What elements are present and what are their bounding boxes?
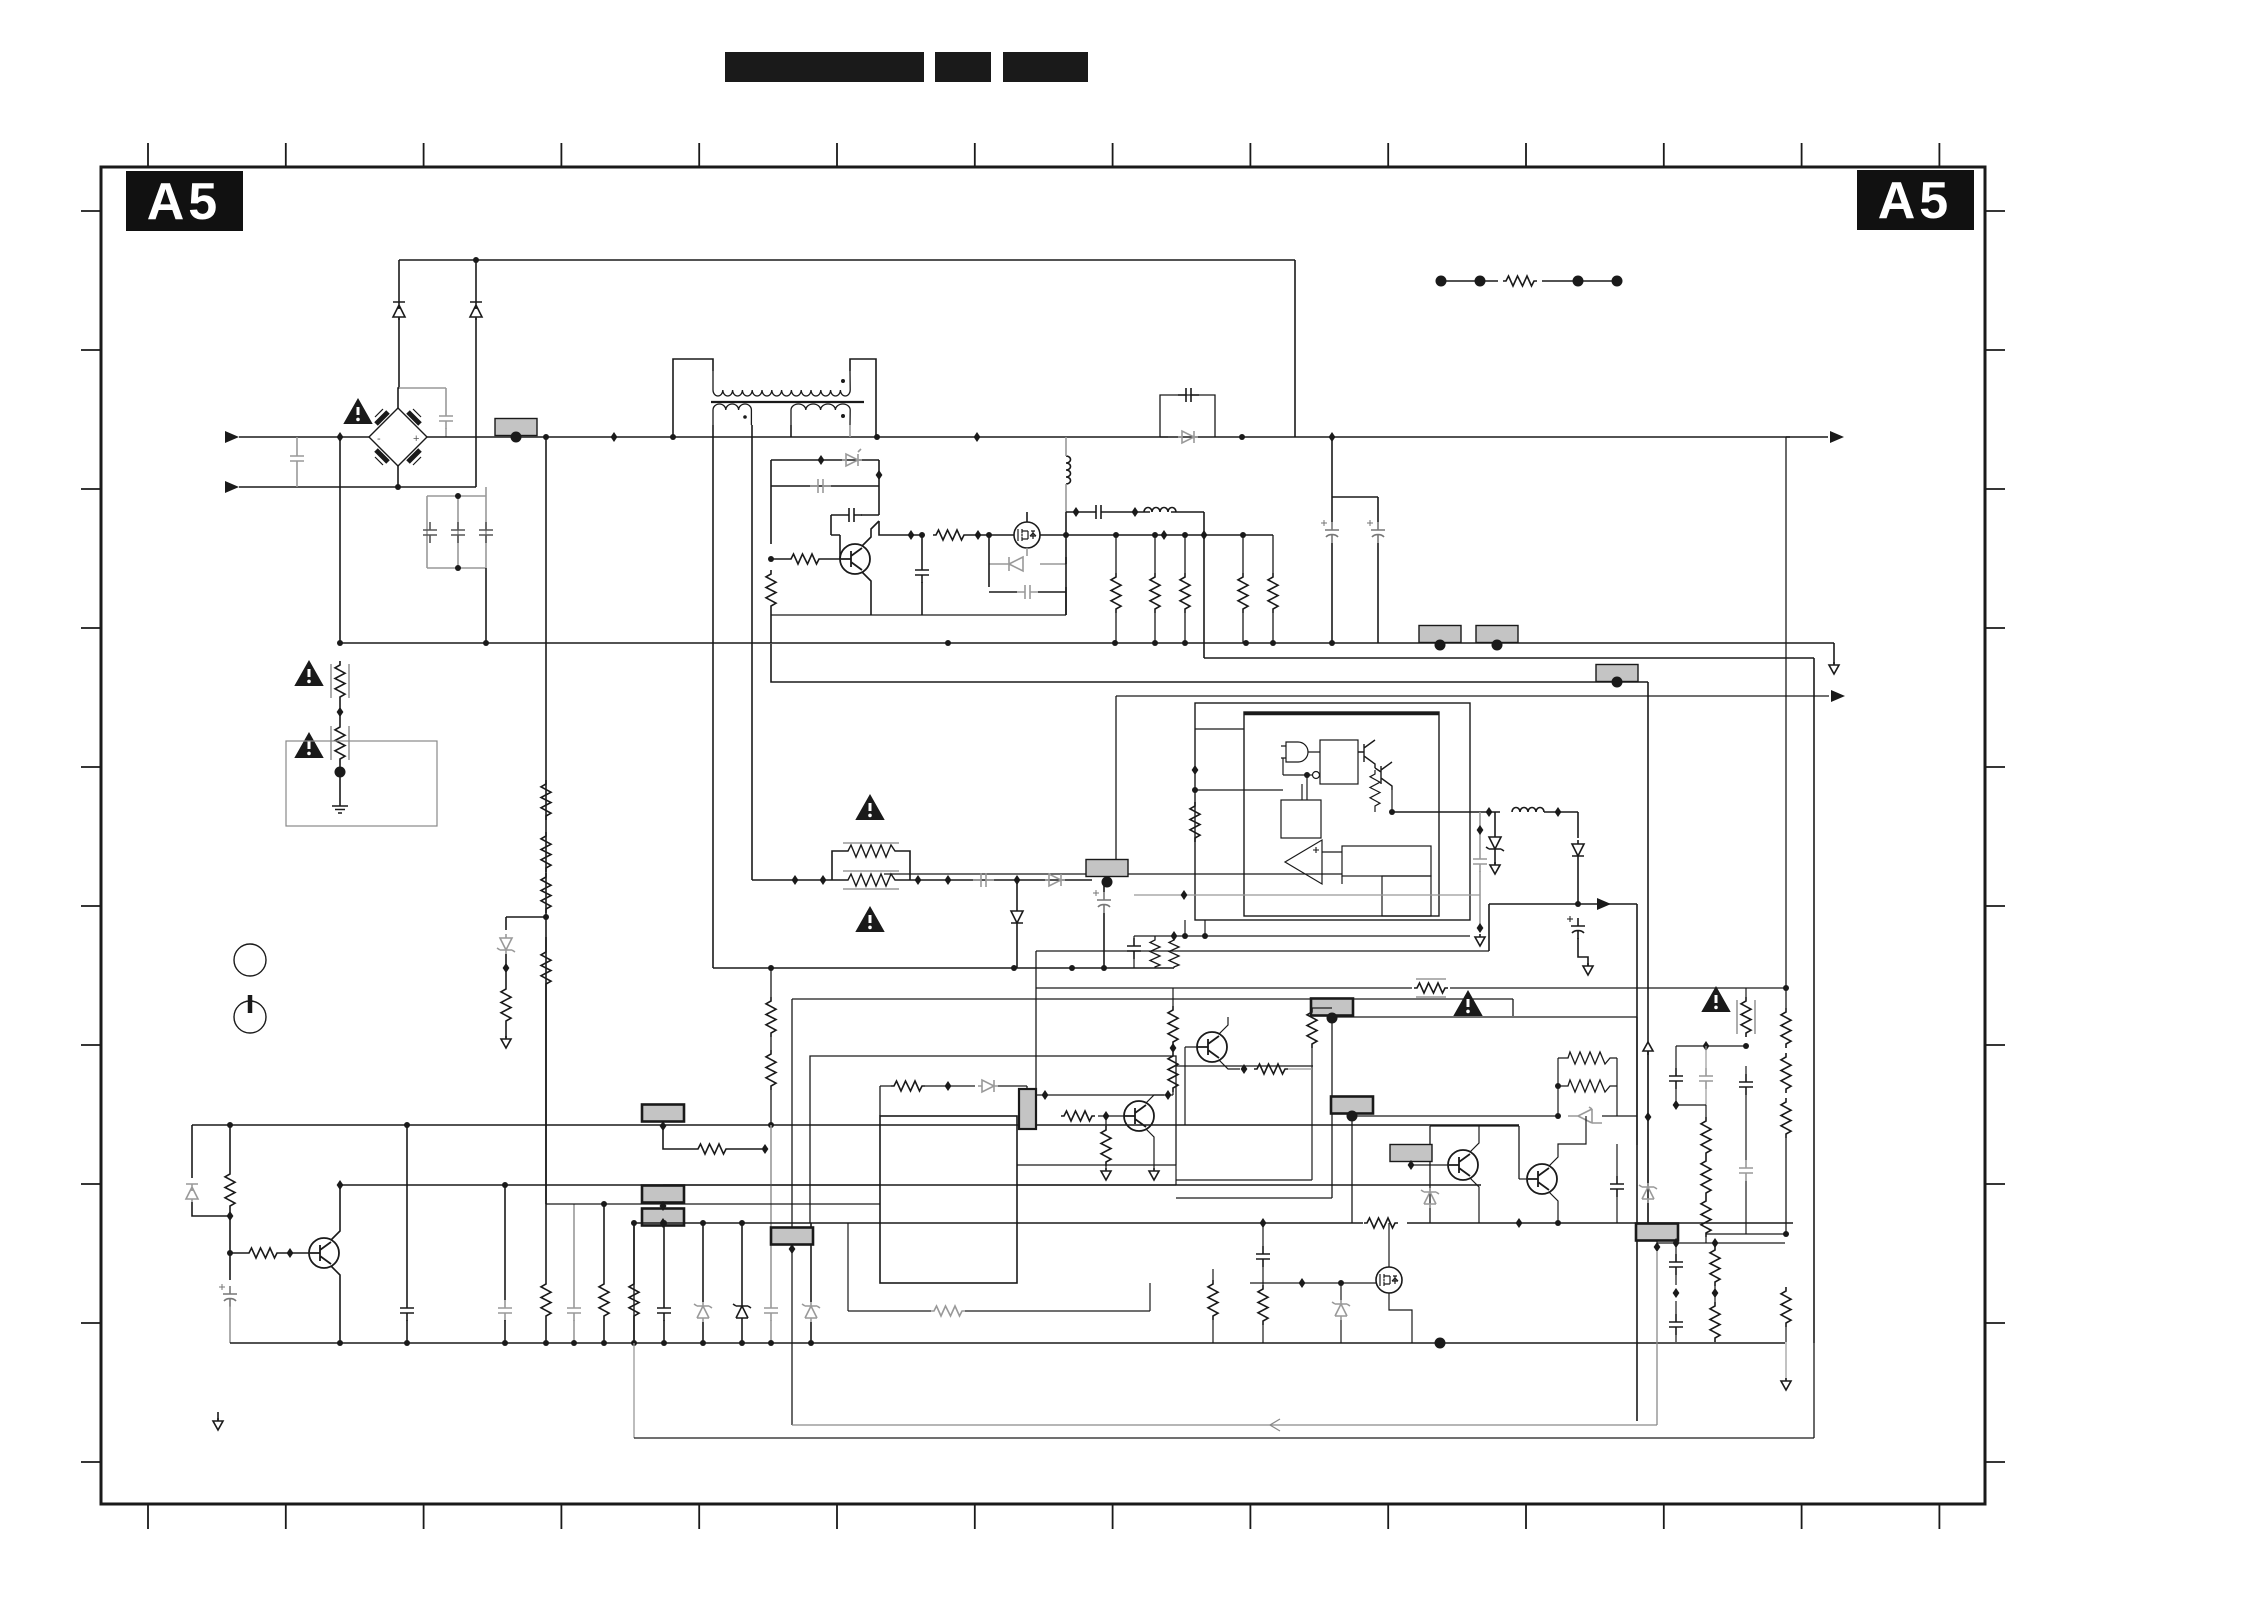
junction: [700, 1340, 706, 1346]
junction: [1192, 765, 1199, 775]
wire opamp to ref: [884, 852, 1342, 884]
wire Q3 collector up: [331, 1185, 340, 1240]
wire x=546 long vertical: [545, 437, 547, 1204]
capacitor C1 across mains: [290, 448, 304, 469]
junction: [1014, 875, 1021, 885]
resistor R1: [788, 554, 822, 564]
wire R29 row: [663, 1126, 762, 1149]
resistor R19: [843, 843, 899, 857]
wire Q3 emitter down: [331, 1266, 340, 1343]
IC pin stub: [1184, 920, 1186, 936]
IC outer box: [1195, 703, 1470, 920]
junction: [768, 556, 774, 562]
connector lug P104: [1596, 665, 1638, 682]
diode D7: [1178, 431, 1198, 443]
junction: [1304, 772, 1310, 778]
junction: [1673, 1100, 1680, 1110]
logic box: [1320, 740, 1358, 784]
wire D20 column + up arrow: [1647, 1050, 1649, 1216]
AND gate: [1281, 742, 1320, 762]
electrolytic cap C12: [1321, 520, 1339, 543]
wire y=682 line: [771, 644, 1648, 1225]
zener D9: [1486, 833, 1504, 853]
junction: [455, 493, 461, 499]
ground arrow: [213, 1418, 223, 1430]
junction: [1389, 809, 1395, 815]
transistor 2 in IC: [1375, 762, 1392, 790]
parallel resistor pair box: [832, 851, 910, 880]
capacitor C8: [915, 562, 929, 583]
resistor R15: [501, 985, 511, 1025]
border frame: [101, 167, 1985, 1504]
capacitor C6: [810, 479, 831, 493]
resistor R45: [1701, 1117, 1711, 1157]
capacitor C21: [498, 1300, 512, 1321]
wire gate: [967, 534, 1014, 536]
wire y=951: [1036, 950, 1489, 952]
wire C24: [770, 1125, 772, 1343]
zener D19: [1421, 1188, 1439, 1208]
resistor R3: [933, 530, 967, 540]
junction: [502, 1340, 508, 1346]
junction: [1182, 640, 1188, 646]
wire Q5 collector: [1470, 1126, 1479, 1152]
resistor R30: [891, 1081, 925, 1091]
junction: [1712, 1238, 1719, 1248]
transistor Q1: [840, 544, 870, 574]
junction: [919, 532, 925, 538]
wire y=968 bus: [713, 967, 1174, 969]
junction: [1486, 807, 1493, 817]
wire y=696 line: [1116, 695, 1829, 697]
wire R9: [1272, 535, 1274, 643]
junction: [768, 965, 774, 971]
junction: [1703, 1041, 1710, 1051]
junction: [1152, 532, 1158, 538]
wire R6: [1154, 535, 1156, 643]
capacitor C7: [841, 508, 862, 522]
wire row2: [771, 485, 879, 487]
open arrow: [1781, 1378, 1791, 1390]
junction: [1783, 985, 1789, 991]
wire C8: [921, 535, 923, 615]
resistor R53: [1168, 1006, 1178, 1046]
big dot: [1327, 1013, 1338, 1024]
wire main bus right end + arrow: [1786, 436, 1828, 438]
wire R52: [1105, 1116, 1107, 1170]
wire slot to right: [1036, 1094, 1098, 1096]
wire R7: [1184, 535, 1186, 643]
junction: [1673, 1288, 1680, 1298]
wire x546 gaps: [545, 937, 547, 1204]
wire D17 to slot: [998, 1086, 1027, 1089]
diode D17: [978, 1080, 998, 1092]
zener D14: [694, 1302, 712, 1322]
junction: [1101, 965, 1107, 971]
capacitor C30: [1739, 1160, 1753, 1181]
junction: [543, 914, 549, 920]
junction: [1240, 532, 1246, 538]
warning triangle: [345, 400, 371, 423]
wire R54 to slot row: [1098, 1094, 1173, 1096]
transistor Q3: [309, 1238, 339, 1268]
secondary winding 1: [713, 404, 751, 425]
junction: [1113, 532, 1119, 538]
junction: [601, 1201, 607, 1207]
zener D11: [1011, 907, 1023, 927]
wire R45-47 links: [1705, 1105, 1707, 1243]
big dot: [511, 432, 522, 443]
gray connector P108: [771, 1228, 813, 1245]
phase dot primary: [841, 379, 845, 383]
junction: [1243, 640, 1249, 646]
junction: [1073, 507, 1080, 517]
junction: [227, 1211, 234, 1221]
junction: [1555, 1220, 1561, 1226]
wire D16: [810, 1223, 812, 1343]
wire R24: [229, 1125, 231, 1216]
big dot: [1612, 276, 1623, 287]
resistor R5: [1111, 573, 1121, 613]
resistor R25 base: [246, 1248, 280, 1258]
inverter bubble: [1283, 758, 1320, 800]
junction: [1069, 965, 1075, 971]
IC pin stub: [1204, 920, 1206, 936]
transistor Q4: [1197, 1032, 1227, 1062]
junction: [1329, 432, 1336, 442]
zener D10: [1572, 840, 1584, 860]
junction: [1181, 890, 1188, 900]
wire Q1 collector to gate row: [879, 521, 922, 535]
wire C31: [1675, 1243, 1677, 1285]
wire bridge top corner to snubber cap: [399, 388, 446, 408]
wire Q8 emitter: [1146, 1129, 1154, 1170]
wire left leg: [770, 460, 772, 544]
wire: [505, 954, 507, 1038]
capacitor C23: [657, 1300, 671, 1321]
diode D6 with bypass: [1160, 395, 1215, 437]
capacitor C24: [764, 1300, 778, 1321]
gray connector P110 thick: [1331, 1097, 1373, 1114]
junction diamond: [660, 1121, 667, 1131]
bus y=936 lower caps: [1134, 935, 1470, 937]
junction: [915, 875, 922, 885]
capacitor C26: [1256, 1246, 1270, 1267]
wire Q1 emitter: [862, 572, 871, 615]
zener D16: [802, 1302, 820, 1322]
junction: [986, 532, 992, 538]
gray connector P112: [1636, 1224, 1678, 1241]
wire R38: [1262, 1283, 1264, 1343]
junction: [337, 640, 343, 646]
capacitor C31: [1669, 1254, 1683, 1275]
junction: [670, 434, 676, 440]
wire y=988: [1036, 951, 1785, 1089]
big dot: [1435, 640, 1446, 651]
open arrow: [1475, 934, 1485, 946]
big dot: [1435, 1338, 1446, 1349]
wire y=1185: [340, 1184, 1481, 1186]
wire base row: [230, 1252, 309, 1254]
wire y=1243 right bus: [1657, 1242, 1785, 1244]
filled arrow: [1597, 898, 1611, 910]
wire R39: [1212, 1269, 1214, 1343]
wire R50 down + gnd arrow: [1785, 1342, 1787, 1380]
wire y=999 box top: [792, 999, 1513, 1425]
ground: [332, 798, 348, 813]
wire C14: [1479, 812, 1481, 928]
junction: [1299, 1278, 1306, 1288]
junction: [1555, 1083, 1561, 1089]
junction: [502, 1182, 508, 1188]
wire gate rail to right: [1040, 534, 1273, 536]
capacitor C2: [439, 408, 453, 429]
connector lug P102: [1419, 626, 1461, 643]
big dot: [1347, 1111, 1358, 1122]
resistor R7: [1180, 573, 1190, 613]
outer box around IC: [810, 1056, 1176, 1223]
bus y=1223 right part: [880, 1222, 1793, 1224]
resistor R32: [1307, 1008, 1317, 1048]
wire D14: [702, 1223, 704, 1343]
sheet label A5 top-right: [1857, 170, 1974, 230]
resistor R36: [1558, 1080, 1617, 1092]
junction: [876, 470, 883, 480]
capacitor C14: [1473, 851, 1487, 872]
big dot: [1436, 276, 1447, 287]
wire D3 stem: [475, 260, 477, 487]
zener D21: [1332, 1300, 1350, 1320]
electrolytic C19: [219, 1284, 237, 1307]
wire gnd stub: [217, 1412, 219, 1421]
wire P112 link: [1648, 1216, 1657, 1243]
open arrow down: [501, 1036, 511, 1048]
junction: [792, 875, 799, 885]
transistor Q5: [1448, 1150, 1478, 1180]
wire R55/R56 column: [770, 968, 772, 1125]
svg-text:+: +: [413, 433, 419, 445]
open arrow up: [1643, 1042, 1653, 1055]
wire Q6 emitter: [1549, 1192, 1558, 1223]
resistor R29: [695, 1144, 729, 1154]
wire base: [771, 558, 788, 560]
warning triangle: [1455, 992, 1481, 1015]
junction: [1673, 1238, 1680, 1248]
junction: [337, 1180, 344, 1190]
wire C15 down: [1578, 938, 1588, 966]
wire base row Q5: [1411, 1161, 1448, 1165]
power switch symbol: [234, 995, 266, 1033]
wire D21: [1340, 1283, 1342, 1343]
connector lug P106: [642, 1186, 684, 1203]
resistor R39: [1208, 1280, 1218, 1320]
redacted title bar 2: [935, 52, 991, 82]
wire C27: [1675, 1046, 1677, 1105]
wire AC line 2: [239, 486, 476, 488]
wire cap row: [831, 514, 879, 516]
junction: [571, 1340, 577, 1346]
wire C29: [1745, 1066, 1747, 1160]
wire base link: [822, 535, 840, 559]
resistor R13: [541, 832, 551, 872]
wire D13 to corner: [192, 1202, 230, 1216]
big dot: [1475, 276, 1486, 287]
big dot: [335, 767, 346, 778]
wire to x1637: [1602, 1115, 1637, 1117]
capacitor C32: [1669, 1314, 1683, 1335]
diode D3: [470, 302, 482, 320]
wire return bus y=1438: [634, 1343, 1814, 1438]
wire x=192 leg: [191, 1125, 193, 1178]
junction: [1011, 965, 1017, 971]
vertical connector slot: [1019, 1089, 1036, 1129]
IC inner box thick top: [1244, 712, 1439, 916]
inductor L3: [1512, 808, 1544, 813]
capacitor C22: [567, 1300, 581, 1321]
diode D12: [1045, 874, 1065, 886]
redacted title bar 3: [1003, 52, 1088, 82]
wire C21: [504, 1185, 506, 1343]
junction diamond: [660, 1201, 667, 1211]
resistor R22: [1169, 936, 1179, 968]
junction: [700, 1220, 706, 1226]
fusible resistor R41: [1737, 997, 1755, 1037]
resistor R40: [1498, 274, 1542, 288]
wire: [445, 428, 447, 437]
svg-text:A5: A5: [147, 173, 221, 231]
wire D11: [1016, 880, 1018, 968]
junction: [473, 257, 479, 263]
resistor R20: [843, 871, 899, 889]
wire: [1301, 784, 1303, 800]
resistor R55: [766, 997, 776, 1037]
transformer core: [711, 401, 864, 403]
junction diamond: [660, 1201, 667, 1211]
resistor R54: [1168, 1052, 1178, 1092]
wire bridge top to diodes: [398, 318, 399, 408]
main IC box U2: [880, 1116, 1017, 1283]
capacitor C10: [1088, 505, 1109, 519]
resistor R51: [1061, 1111, 1095, 1121]
resistor R8: [1238, 573, 1248, 613]
connector lug P105: [642, 1105, 684, 1122]
wire C19: [229, 1306, 231, 1343]
junction: [503, 963, 510, 973]
capacitor bank C3 C4 C5 rails: [427, 487, 486, 568]
resistor R17 on left edge: [1190, 802, 1200, 842]
wire C30 down: [1745, 1181, 1747, 1234]
junction: [945, 1081, 952, 1091]
junction: [762, 1144, 769, 1154]
phase dot secondary2: [841, 414, 845, 418]
resistor R49: [1710, 1302, 1720, 1342]
wire C17: [1103, 882, 1105, 968]
wire C22: [573, 1204, 575, 1343]
wire opto link up: [1115, 696, 1117, 860]
resistor R28: [629, 1280, 639, 1320]
wire: [339, 701, 341, 723]
wire C9 row: [989, 587, 1066, 615]
wire cell bottom: [771, 614, 1066, 616]
wire y=1017 row: [1332, 1017, 1637, 1145]
connector lug P101: [495, 419, 537, 436]
junction: [601, 1340, 607, 1346]
wire D15: [741, 1223, 743, 1343]
sheet label A5 top-left: [126, 171, 243, 231]
wire L1: [1065, 437, 1067, 512]
junction: [1171, 931, 1178, 941]
junction: [483, 640, 489, 646]
junction: [1477, 923, 1484, 933]
wire IC output row y=812: [1392, 811, 1500, 813]
open arrow: [1490, 862, 1500, 874]
wire R8: [1242, 535, 1244, 643]
capacitor C18: [1127, 938, 1141, 959]
junction: [945, 640, 951, 646]
junction: [543, 434, 549, 440]
junction: [660, 1218, 667, 1228]
junction: [1192, 787, 1198, 793]
wire y=1188: [663, 1184, 880, 1186]
resistor R35: [1558, 1052, 1617, 1064]
junction: [337, 1340, 343, 1346]
junction: [1202, 933, 1208, 939]
wire P109 down: [1176, 1018, 1332, 1198]
connector lug P103: [1476, 626, 1518, 643]
wire y=880: [752, 879, 1092, 881]
resistor R44: [1781, 1098, 1791, 1138]
zener D8: [497, 934, 515, 954]
MOSFET Q2: [1014, 522, 1040, 548]
junction: [1712, 1288, 1719, 1298]
wire R44 bottom: [1785, 1138, 1787, 1234]
junction: [227, 1122, 233, 1128]
junction: [455, 565, 461, 571]
resistor R50: [1781, 1287, 1791, 1327]
wire R2 bottom: [770, 610, 772, 643]
junction: [1241, 1064, 1248, 1074]
inductor L1: [1066, 456, 1071, 484]
wire bridge bottom: [397, 466, 399, 487]
junction: [874, 434, 880, 440]
resistor R24: [225, 1170, 235, 1210]
junction: [337, 707, 344, 717]
plus minus: [1313, 847, 1319, 874]
wire Q4 emitter: [1219, 1060, 1240, 1069]
capacitor C20: [400, 1300, 414, 1321]
junction: [975, 530, 982, 540]
resistor R43: [1781, 1053, 1791, 1093]
wire R50: [1785, 1287, 1787, 1342]
junction: [227, 1250, 233, 1256]
reference block: [1342, 846, 1431, 876]
svg-text:-: -: [377, 433, 381, 445]
wire: [1544, 812, 1578, 838]
junction: [631, 1340, 637, 1346]
wire C1 stubs: [296, 437, 298, 487]
inductor L2: [1144, 508, 1176, 513]
diode D2: [393, 302, 405, 320]
wire dot row: [1441, 280, 1617, 282]
junction: [1165, 1090, 1172, 1100]
wire C32: [1675, 1301, 1677, 1342]
wire drain: [1026, 512, 1028, 522]
wire mid bus y=643: [340, 643, 1834, 664]
wire D5 legs: [989, 535, 1066, 587]
big dot: [1612, 677, 1623, 688]
junction: [1270, 640, 1276, 646]
junction: [739, 1340, 745, 1346]
